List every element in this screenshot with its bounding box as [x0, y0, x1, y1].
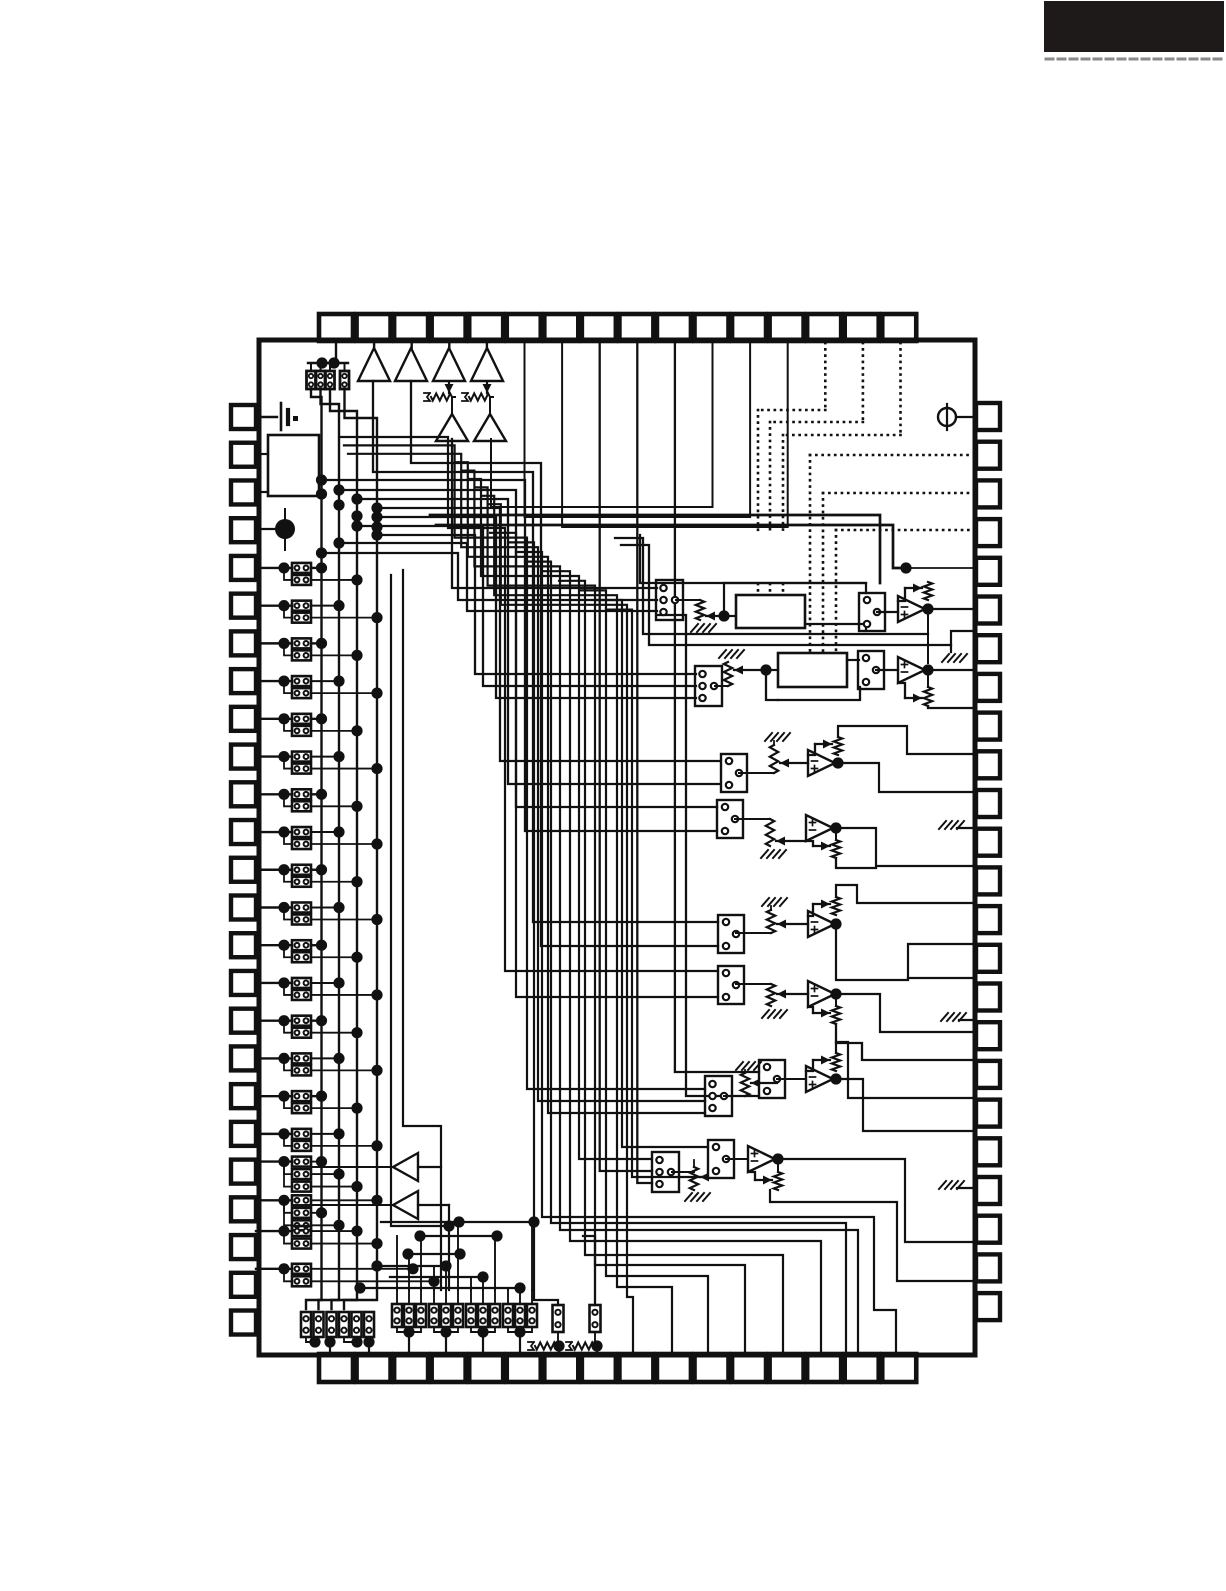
switch SLB y1212.83 [292, 1208, 311, 1218]
wire SL7 out [311, 680, 339, 682]
wire left pin row y1161.6 [256, 1160, 292, 1162]
wire op-amp B out [925, 669, 976, 671]
bottom pin 14 [807, 1354, 841, 1382]
selector switch SW-H [708, 1140, 734, 1178]
wire to SL24 [284, 983, 292, 995]
bus horizontal 1222 [381, 1221, 534, 1223]
junction dot [371, 1195, 382, 1206]
junction dot [454, 1248, 465, 1259]
switch SL26 [292, 1028, 311, 1038]
junction dot [351, 493, 362, 504]
top pin 14 [807, 314, 841, 341]
buffer amp A3 [433, 348, 465, 381]
wire S2 top [320, 363, 322, 371]
right pin 22 [976, 1216, 1000, 1243]
switch SB4 [339, 1312, 349, 1337]
trimmer R-F [736, 983, 771, 985]
wire deep H3a [469, 479, 652, 1159]
wire left pin 11 [256, 793, 292, 795]
left pin 9 [231, 707, 256, 731]
junction dot [278, 751, 289, 762]
wire op-amp E out [836, 924, 976, 980]
trimmer R-A [676, 599, 700, 601]
wire to SL6 [284, 643, 292, 655]
junction dot [316, 547, 327, 558]
switch SL29 [292, 1091, 311, 1101]
junction dot [278, 940, 289, 951]
wire SL1 out [311, 567, 322, 569]
left pin 11 [231, 782, 256, 806]
wire SL17 out [311, 869, 322, 871]
wire op-amp A out [925, 608, 976, 610]
left pin 4 [231, 518, 256, 542]
junction dot [371, 914, 382, 925]
ground G-E [762, 898, 787, 906]
wire lattice v10 [507, 1288, 509, 1290]
wire nest N8 [482, 496, 672, 1354]
left pin 19 [231, 1084, 256, 1108]
wire to bottom pin 2 [368, 1337, 370, 1354]
junction dot [371, 763, 382, 774]
left pin 5 [231, 556, 256, 580]
wire nest N3 [462, 471, 858, 1354]
bus wire VB2 [319, 389, 340, 1309]
wire mid net 515 [430, 515, 880, 583]
right pin 7 [976, 635, 1000, 662]
junction dot [316, 1015, 327, 1026]
switch SL8 [292, 688, 311, 698]
op-amp U-E [808, 911, 835, 937]
junction dot [363, 1336, 374, 1347]
right pin 6 [976, 597, 1000, 624]
wire deep F1 [340, 437, 718, 971]
wire A net up [724, 583, 866, 616]
top pin 9 [619, 314, 653, 341]
wire T5 output to SW-A1 [452, 439, 657, 588]
bus horizontal 1266 [377, 1265, 446, 1267]
dotted net D2 [862, 343, 865, 422]
wire S3 top [329, 363, 331, 371]
bottom pin 16 [882, 1354, 916, 1382]
op-amp U-G [806, 1066, 833, 1092]
junction dot [371, 1260, 382, 1271]
wire top pin 5 down [486, 341, 488, 348]
dotted net D5 [823, 492, 976, 495]
junction dot [528, 1216, 539, 1227]
wiper arrow R-C [780, 762, 808, 764]
wire SL31 out [311, 1133, 339, 1135]
dotted net D1 [824, 343, 827, 410]
wire lattice v5 [445, 1266, 447, 1290]
dotted net D6 [836, 529, 976, 532]
right pin 9 [976, 713, 1000, 740]
wire to SL20 [284, 907, 292, 919]
wire bus to SW-G2 [658, 615, 759, 1096]
junction dot [351, 1181, 362, 1192]
top pin 10 [657, 314, 691, 341]
bottom pin 10 [657, 1354, 691, 1382]
wire left pin 12 [256, 831, 292, 833]
junction dot [718, 610, 729, 621]
left pin 23 [231, 1235, 256, 1259]
wire out [311, 1161, 322, 1163]
trimmer RT2 [486, 382, 488, 393]
wire feed [445, 1290, 447, 1304]
wire fan E1 from A1 buffer [373, 381, 718, 922]
junction dot [402, 1248, 413, 1259]
switch SM3 [416, 1304, 426, 1327]
trimmer RB2 [566, 1342, 572, 1350]
junction dot [333, 537, 344, 548]
junction dot [351, 876, 362, 887]
left pin 25 [231, 1311, 256, 1335]
right pin 8 [976, 674, 1000, 701]
wire lattice v8 [482, 1277, 484, 1290]
bottom pin 2 [357, 1354, 391, 1382]
wire feed [396, 1290, 398, 1304]
wire feed [470, 1290, 472, 1304]
bottom pin 13 [770, 1354, 804, 1382]
wire pin L2 to X1 [256, 453, 268, 455]
wire top pin 8 to SW-H3b [600, 341, 652, 1171]
selector switch SW-F [718, 966, 744, 1004]
wire deep F2 [490, 533, 718, 997]
switch SL2 [292, 575, 311, 585]
switch SM6 [453, 1304, 463, 1327]
wire R-A to X-A [724, 615, 736, 617]
switch SLB y1281.29 [292, 1276, 311, 1286]
battery B1 [256, 416, 277, 418]
trimmer R-E [736, 932, 771, 934]
wire feed [482, 1290, 484, 1304]
ground G4 at edge [957, 1187, 976, 1189]
top pin 11 [695, 314, 729, 341]
ground G2 at edge [957, 827, 976, 829]
junction dot [440, 1326, 451, 1337]
bus wire VB4 [344, 389, 377, 1309]
ground G-A [691, 624, 716, 632]
wire fan D2 [322, 480, 718, 831]
wire SL19 out [311, 906, 339, 908]
switch SM11 [515, 1304, 525, 1327]
selector switch SW-E [718, 915, 744, 953]
junction dot [371, 612, 382, 623]
wire U-link T6 to top pin 11 [491, 341, 713, 507]
wire nest N1 [516, 552, 896, 1354]
left pin 21 [231, 1160, 256, 1184]
top pin 1 [319, 314, 353, 341]
junction dot [333, 1169, 344, 1180]
switch SL22 [292, 952, 311, 962]
switch SL5 [292, 638, 311, 648]
wire feed [494, 1290, 496, 1304]
left pin 2 [231, 443, 256, 467]
junction dot [316, 562, 327, 573]
header black bar [1044, 1, 1224, 52]
junction dot [371, 838, 382, 849]
junction dot [324, 1336, 335, 1347]
bottom pin 3 [394, 1354, 428, 1382]
junction dot [354, 1282, 365, 1293]
wire left pin 13 [256, 869, 292, 871]
wire out [311, 1212, 322, 1214]
wire triad join [508, 1327, 532, 1332]
switch SM4 [429, 1304, 439, 1327]
wire lattice v9 [494, 1236, 496, 1290]
wire deep G3b [348, 454, 705, 1101]
wire nest N6 [476, 487, 745, 1354]
wire out [311, 1268, 413, 1270]
wire SL12 out [311, 768, 377, 770]
wire edge stub 978 [908, 977, 976, 979]
junction dot [316, 789, 327, 800]
wiper arrow R-F [777, 993, 808, 995]
trimmer R-D [735, 818, 770, 820]
bottom pin 9 [619, 1354, 653, 1382]
block X1 oscillator [268, 435, 319, 496]
junction dot [371, 1238, 382, 1249]
buffer amp A1 [358, 348, 390, 381]
right pin 1 [976, 403, 1000, 430]
wire lattice v3 [420, 1236, 422, 1290]
top pin 7 [544, 314, 578, 341]
junction dot [477, 1326, 488, 1337]
wire left pin 19 [256, 1095, 292, 1097]
switch SB3 [327, 1312, 337, 1337]
junction dot [333, 902, 344, 913]
junction dot [278, 600, 289, 611]
junction dot [316, 474, 327, 485]
wire to SL8 [284, 681, 292, 693]
junction dot [316, 713, 327, 724]
IC body outline U1 [259, 340, 975, 1355]
switch SL24 [292, 990, 311, 1000]
op-amp U-B [898, 657, 925, 683]
wire S1 top [310, 363, 312, 371]
top pin 12 [732, 314, 766, 341]
wire feed [433, 1290, 435, 1304]
junction dot [278, 826, 289, 837]
wire SL27 out [311, 1057, 339, 1059]
wire lattice v2 [408, 1254, 410, 1290]
switch SLB y1231.06 [292, 1226, 311, 1236]
wire feed [519, 1290, 521, 1304]
junction dot [830, 822, 841, 833]
op-amp U-A [898, 596, 925, 622]
wire fan C2 [357, 499, 719, 784]
switch SM1 [392, 1304, 402, 1327]
wire SL14 out [311, 805, 357, 807]
wire lattice v12 [531, 1222, 533, 1290]
switch SL12 [292, 764, 311, 774]
junction dot [316, 357, 327, 368]
junction dot [922, 603, 933, 614]
wire nest N2 [525, 562, 846, 1354]
junction dot [278, 1263, 289, 1274]
wire to bottom pin 1 [329, 1342, 331, 1354]
wire SL4 out [311, 617, 377, 619]
wire feed [408, 1290, 410, 1304]
wire left pin row y1268.79 [256, 1268, 292, 1270]
wire op-amp G out [836, 1042, 976, 1098]
analog switch S1 [307, 371, 316, 389]
wire feed [507, 1290, 509, 1304]
junction dot [351, 801, 362, 812]
right pin 16 [976, 984, 1000, 1011]
wire lattice v1 [396, 1236, 398, 1290]
wire feed [531, 1290, 533, 1304]
junction dot [278, 789, 289, 800]
switch SL11 [292, 752, 311, 762]
wire deep H1 [596, 600, 708, 1147]
buffer amp A5 [436, 414, 468, 441]
wire U-link top pin 7 to pin 13 [562, 341, 788, 527]
right pin 21 [976, 1177, 1000, 1204]
left pin 15 [231, 933, 256, 957]
stub SW-A inputs [648, 587, 657, 589]
switch SL27 [292, 1053, 311, 1063]
junction dot [514, 1282, 525, 1293]
switch SLB y1200.33 [292, 1195, 311, 1205]
wire B net down [766, 670, 778, 700]
wire triad join [434, 1327, 458, 1332]
top pin 4 [432, 314, 466, 341]
right pin 15 [976, 945, 1000, 972]
feedback trimmer R-FA [924, 582, 932, 600]
wire fan B2 [357, 526, 696, 686]
top pin 13 [770, 314, 804, 341]
switch SL21 [292, 940, 311, 950]
wire edge stub 568 [906, 567, 976, 569]
bus horizontal 1288 [360, 1287, 520, 1289]
bottom pin 7 [544, 1354, 578, 1382]
right pin 11 [976, 790, 1000, 817]
switch SL25 [292, 1016, 311, 1026]
right pin 10 [976, 751, 1000, 778]
wire triad join [471, 1327, 495, 1332]
feedback trimmer R-FB [927, 670, 929, 687]
wire to SL10 [284, 719, 292, 731]
wire SL11 out [311, 756, 339, 758]
wire SW-G to op-amp G [777, 1078, 806, 1080]
trimmer RB1 [528, 1342, 534, 1350]
wire SL15 out [311, 831, 339, 833]
wire long net to ground G1 [621, 545, 951, 645]
ground G-H [685, 1193, 710, 1201]
switch SL15 [292, 827, 311, 837]
junction dot [371, 989, 382, 1000]
junction dot [351, 510, 362, 521]
junction dot [309, 1336, 320, 1347]
switch SM10 [503, 1304, 513, 1327]
feedback trimmer R-FH [777, 1159, 779, 1172]
right pin 4 [976, 519, 1000, 546]
wire lattice v7 [470, 1277, 472, 1290]
wire left pin 10 [256, 755, 292, 757]
left pin 16 [231, 971, 256, 995]
left pin 6 [231, 594, 256, 618]
switch SL23 [292, 978, 311, 988]
wire SL9 out [311, 718, 322, 720]
junction dot [316, 1091, 327, 1102]
trimmer R-G [724, 1095, 745, 1097]
switch SLB y1225.33 [292, 1220, 311, 1230]
junction dot [333, 1128, 344, 1139]
buffer amp A8 [393, 1191, 418, 1219]
wire SL8 out [311, 692, 377, 694]
bottom pin 1 [319, 1354, 353, 1382]
switch SL32 [292, 1141, 311, 1151]
junction dot [316, 1207, 327, 1218]
junction dot [278, 1225, 289, 1236]
junction dot [333, 676, 344, 687]
switch SP1 [553, 1305, 564, 1332]
wire to SL26 [284, 1021, 292, 1033]
wire triad join [397, 1327, 421, 1332]
wire SL18 out [311, 881, 357, 883]
wire nest N9 [489, 504, 633, 1354]
wire deep G3c [456, 462, 705, 1113]
junction dot [772, 1153, 783, 1164]
top pin 16 [882, 314, 916, 341]
junction dot [371, 521, 382, 532]
wire to SL2 [284, 568, 292, 580]
junction dot [477, 1271, 488, 1282]
junction dot [278, 1015, 289, 1026]
junction dot [428, 1276, 439, 1287]
junction dot [922, 664, 933, 675]
wire SL21 out [311, 944, 322, 946]
junction dot [278, 902, 289, 913]
wire op-amp C out upper [838, 726, 976, 754]
wire SL23 out [311, 982, 339, 984]
switch SL9 [292, 714, 311, 724]
bus horizontal 1236 [420, 1235, 497, 1237]
switch SL19 [292, 902, 311, 912]
op-amp U-H [748, 1146, 775, 1172]
wire to SL16 [284, 832, 292, 844]
wire SL24 out [311, 994, 377, 996]
left pin 12 [231, 820, 256, 844]
junction dot [832, 757, 843, 768]
left pin 22 [231, 1197, 256, 1221]
junction dot [371, 529, 382, 540]
ground G-F [762, 1010, 787, 1018]
wire X-B out top [847, 659, 859, 661]
wiper arrow R-G [751, 1082, 777, 1084]
switch SL28 [292, 1065, 311, 1075]
wire to bottom pin 7 [558, 1346, 560, 1354]
junction dot [351, 650, 362, 661]
right pin 24 [976, 1293, 1000, 1320]
wire S4 top [344, 363, 346, 371]
left pin 8 [231, 669, 256, 693]
ground G-C [765, 733, 790, 741]
delay block X-A [736, 595, 805, 628]
switch SL17 [292, 865, 311, 875]
junction dot [278, 1128, 289, 1139]
wire out [311, 1173, 339, 1175]
junction dot [351, 1336, 362, 1347]
wire to bottom pin 5 [482, 1332, 484, 1354]
switch SL10 [292, 726, 311, 736]
junction dot [278, 864, 289, 875]
wire SL32 out [311, 1145, 377, 1147]
wire fan B1 [377, 535, 696, 674]
junction dot [278, 1156, 289, 1167]
right pin 19 [976, 1100, 1000, 1127]
right pin 2 [976, 442, 1000, 469]
